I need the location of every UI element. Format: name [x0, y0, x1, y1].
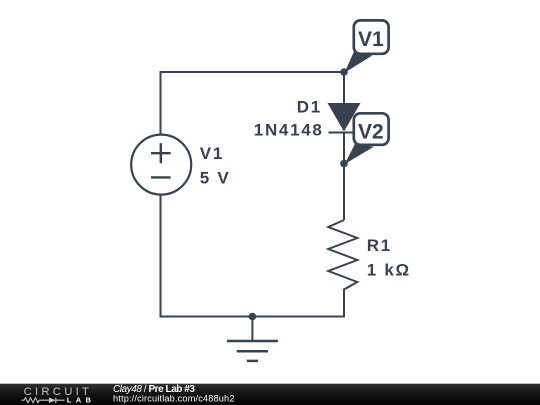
svg-text:LAB: LAB — [67, 395, 96, 404]
svg-text:V1: V1 — [200, 144, 224, 163]
svg-text:V1: V1 — [358, 28, 384, 51]
svg-text:1N4148: 1N4148 — [254, 121, 324, 140]
svg-text:D1: D1 — [297, 98, 322, 117]
svg-text:5 V: 5 V — [200, 168, 231, 187]
svg-text:R1: R1 — [367, 236, 392, 255]
svg-text:V2: V2 — [358, 120, 384, 143]
svg-text:1 kΩ: 1 kΩ — [367, 261, 411, 280]
svg-text:http://circuitlab.com/c488uh2: http://circuitlab.com/c488uh2 — [113, 394, 235, 404]
